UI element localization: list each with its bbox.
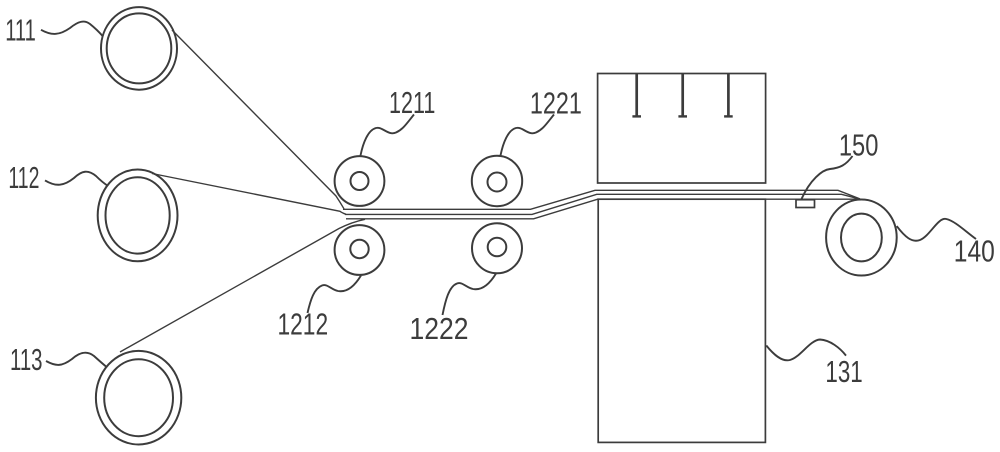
svg-text:1221: 1221 (530, 85, 582, 120)
svg-text:113: 113 (10, 342, 43, 377)
svg-text:1211: 1211 (389, 85, 435, 120)
svg-text:150: 150 (839, 127, 879, 162)
svg-text:131: 131 (825, 354, 862, 389)
svg-text:1222: 1222 (410, 311, 469, 346)
svg-text:111: 111 (5, 12, 36, 47)
svg-text:140: 140 (954, 233, 995, 268)
svg-text:112: 112 (8, 160, 39, 195)
svg-text:1212: 1212 (278, 306, 329, 341)
